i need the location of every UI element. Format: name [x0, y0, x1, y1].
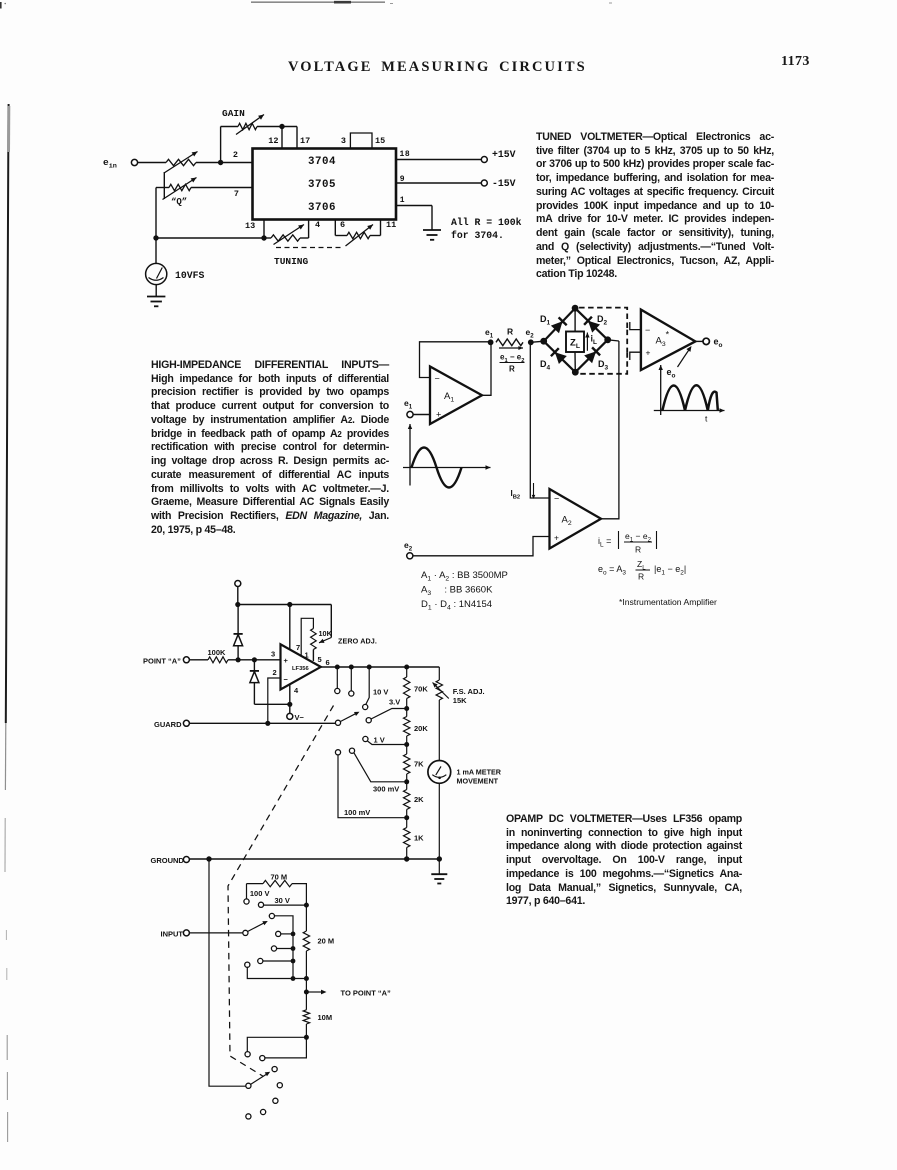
op-amp A3 [641, 310, 695, 370]
contact input 2 [276, 931, 281, 936]
node to point A [304, 990, 309, 995]
wire wiper link between pots [163, 172, 165, 199]
wire op-amp output bus [321, 666, 440, 668]
zero-adj wiper wire [330, 605, 332, 638]
svg-text:3.V: 3.V [389, 698, 400, 707]
wire e2 node down to A2 minus [530, 345, 549, 498]
resistor 20M [305, 905, 307, 931]
svg-text:-15V: -15V [492, 178, 516, 189]
resistor R [496, 339, 523, 346]
junction 30V tap [304, 903, 309, 908]
current direction arrow under R [499, 347, 523, 349]
wire V+ rail [238, 604, 331, 606]
diode bridge arms [544, 308, 575, 341]
svg-text:4: 4 [294, 686, 299, 695]
wire guard bus [190, 722, 336, 724]
junction 100mV tap [404, 815, 409, 820]
svg-text:6: 6 [340, 220, 345, 230]
svg-text:3: 3 [341, 136, 346, 146]
text block: HIGH-IMPEDANCE DIFFERENTIAL INPUTS caption [151, 359, 389, 538]
wire gain pot to pins 12/17 [257, 126, 297, 128]
contact bottom mid [260, 1056, 265, 1061]
page number 1173 [781, 54, 810, 70]
wire pin 18 to +15V [396, 159, 481, 161]
svg-text:t: t [705, 414, 708, 424]
switch common bottom [246, 1083, 251, 1088]
junction V- [287, 702, 292, 707]
wire 10V contact [366, 667, 369, 705]
svg-text:R: R [638, 572, 644, 582]
svg-text:2: 2 [273, 668, 277, 677]
svg-text:A1​: A1​ [444, 391, 454, 404]
svg-text:18: 18 [400, 150, 411, 159]
wire minus input to guard [268, 678, 281, 723]
svg-text:12: 12 [268, 136, 278, 146]
switch arm bottom [251, 1073, 268, 1084]
V+ supply terminal [235, 581, 241, 587]
svg-text:IB2​: IB2​ [511, 489, 521, 501]
svg-text:100K: 100K [208, 648, 227, 657]
contact spare 2 [273, 1098, 278, 1103]
wire contact 2 [281, 933, 293, 935]
junction common left [153, 235, 158, 240]
variable resistor gain [238, 123, 257, 129]
svg-text:13: 13 [245, 221, 255, 231]
svg-text:70K: 70K [414, 685, 428, 694]
svg-text:10K: 10K [319, 629, 333, 638]
svg-text:3705: 3705 [308, 179, 336, 191]
switch common contact (range) [335, 720, 340, 725]
wire A2 output to bridge [601, 341, 619, 519]
junction ground divider [404, 856, 409, 861]
svg-text:R: R [509, 365, 515, 374]
wire contact 5 to bus bottom [247, 967, 306, 978]
wire common horizontal [156, 237, 264, 239]
svg-text:F.S. ADJ.: F.S. ADJ. [453, 687, 485, 696]
wire input to switch common [190, 932, 244, 934]
svg-text:2K: 2K [414, 795, 424, 804]
junction output 10V branch [367, 665, 372, 670]
wire 100mV contact to divider [338, 755, 407, 818]
IC box 3704/3705/3706 [253, 149, 397, 220]
wire contact 4 [263, 960, 293, 962]
wire 100V contact to 70M [246, 884, 248, 899]
ground rail [190, 858, 440, 860]
svg-text:ZERO ADJ.: ZERO ADJ. [338, 637, 377, 646]
svg-text:e1​: e1​ [404, 398, 413, 411]
svg-text:4: 4 [315, 220, 320, 230]
wire A3 output [695, 340, 703, 342]
terminal INPUT [183, 930, 189, 936]
contact input 3 [271, 946, 276, 951]
svg-text:10M: 10M [318, 1013, 333, 1022]
dashed feedback box [579, 308, 627, 330]
svg-text:6: 6 [326, 658, 330, 667]
contact bottom arm target [272, 1067, 277, 1072]
resistor 1K [406, 818, 408, 828]
ground symbol IC pin 1 [423, 229, 441, 231]
svg-text:POINT “A”: POINT “A” [143, 657, 181, 666]
text block: TUNED VOLTMETER caption [536, 131, 774, 282]
terminal -15V [481, 180, 487, 186]
svg-text:All R = 100k: All R = 100k [451, 217, 522, 228]
junction output stub A [335, 665, 340, 670]
wire e1 to A1 + [413, 414, 430, 416]
contact 300mV [349, 748, 354, 753]
svg-text:1 V: 1 V [374, 736, 385, 745]
svg-text:−: − [554, 494, 559, 504]
terminal POINT A [183, 657, 189, 663]
svg-text:LF356: LF356 [292, 666, 310, 672]
resistor 70K [406, 667, 408, 677]
svg-text:11: 11 [386, 220, 396, 230]
input terminal e_in [131, 159, 137, 165]
svg-text:7K: 7K [414, 760, 424, 769]
contact input 4 [258, 958, 263, 963]
terminal GROUND [183, 857, 189, 863]
svg-text:2: 2 [233, 150, 238, 160]
svg-text:+: + [646, 348, 651, 358]
terminal e_o [703, 338, 709, 344]
wire FS to meter [438, 700, 440, 761]
svg-text:TUNING: TUNING [274, 256, 309, 267]
variable resistor tuning 2 [334, 220, 336, 236]
wire ground to bottom switch [209, 859, 246, 1086]
svg-text:30 V: 30 V [275, 896, 290, 905]
wire to point A node [305, 979, 307, 993]
wire e_in to scale pot [138, 162, 166, 164]
svg-text:R: R [635, 545, 641, 555]
svg-text:D1​ · D4​ : 1N4154: D1​ · D4​ : 1N4154 [421, 599, 492, 612]
resistor 10K zero adjust [301, 618, 313, 656]
svg-text:MOVEMENT: MOVEMENT [457, 776, 499, 785]
wire pin 4 [289, 685, 291, 705]
output waveform humps [662, 385, 717, 410]
variable resistor Q pot [156, 187, 169, 189]
svg-text:iL​ =: iL​ = [598, 536, 611, 549]
diode D2 [588, 321, 600, 333]
junction at pin 13 branch [261, 235, 266, 240]
svg-text:−: − [284, 675, 289, 684]
svg-text:20 M: 20 M [318, 937, 335, 946]
svg-text:*Instrumentation Amplifier: *Instrumentation Amplifier [619, 597, 717, 607]
contact input top [269, 913, 274, 918]
svg-text:15: 15 [375, 136, 385, 146]
svg-text:7: 7 [296, 643, 300, 652]
wire contact 3 [277, 948, 293, 950]
wire 100K to plus input [228, 659, 281, 661]
diode D1 [551, 321, 563, 333]
stub contact A [336, 667, 338, 689]
junction V+ pin7 [287, 602, 292, 607]
svg-text:100 V: 100 V [250, 889, 270, 898]
bridge vertex nodes [572, 305, 579, 312]
junction 300mV tap [404, 779, 409, 784]
diode clamp upper [237, 605, 239, 634]
dashed gang link tuning [276, 247, 343, 249]
svg-text:GUARD: GUARD [154, 720, 182, 729]
svg-text:−: − [645, 325, 650, 335]
junction ground meter [437, 856, 442, 861]
arrow to point A [306, 991, 322, 993]
svg-text:3704: 3704 [308, 156, 336, 168]
junction output stub B [349, 665, 354, 670]
contact bottom left [245, 1052, 250, 1057]
contact input 5 [245, 962, 250, 967]
diode clamp lower [253, 660, 255, 671]
wire meter to ground [155, 285, 157, 296]
wire V+ terminal down [237, 587, 239, 605]
svg-text:1K: 1K [414, 834, 424, 843]
ground symbol meter [147, 296, 165, 298]
wire top contact to bus [275, 916, 294, 979]
wire common to meter [155, 238, 157, 264]
junction 1V tap [404, 742, 409, 747]
resistor 10M [305, 992, 307, 1010]
wire Q pot down to common [155, 188, 157, 239]
svg-text:10VFS: 10VFS [175, 270, 205, 281]
current arrow i_L [586, 333, 588, 351]
node e2 [528, 339, 534, 345]
input sine wave [412, 448, 462, 488]
switch arm input [248, 922, 266, 931]
svg-text:15K: 15K [453, 696, 467, 705]
svg-text:+: + [284, 656, 289, 665]
wire pin 9 to -15V [396, 182, 481, 184]
svg-text:for 3704.: for 3704. [451, 230, 504, 241]
wire to V- terminal [289, 704, 291, 713]
svg-text:+: + [436, 410, 441, 420]
svg-text:20K: 20K [414, 724, 428, 733]
svg-text:e1​: e1​ [485, 327, 494, 340]
svg-text:R: R [507, 327, 513, 337]
svg-text:−: − [435, 374, 440, 384]
wire 30V contact to divider [264, 904, 307, 906]
svg-text:A3​ : BB 3660K: A3​ : BB 3660K [421, 585, 493, 598]
svg-text:eo​: eo​ [714, 337, 723, 350]
wire A3 plus input stub [630, 352, 641, 360]
junction output 70K branch [404, 665, 409, 670]
junction divider mid [304, 976, 309, 981]
contact 30V [258, 902, 263, 907]
wire A1 output up [482, 342, 491, 396]
svg-text:D3​: D3​ [598, 359, 609, 372]
junction V+ diode [235, 602, 240, 607]
svg-text:D4​: D4​ [540, 359, 551, 372]
svg-text:eo​ = A3​: eo​ = A3​ [598, 564, 626, 577]
wire scale pot to pin 2 [196, 162, 253, 164]
scan artifact: left gutter line [6, 104, 9, 723]
svg-text:GROUND: GROUND [151, 856, 185, 865]
variable resistor FS ADJ 15K [436, 680, 442, 700]
diode D3 [584, 351, 596, 363]
svg-text:7: 7 [234, 189, 239, 199]
variable resistor tuning 1 [271, 235, 300, 241]
load Z_L box [566, 332, 584, 353]
wire pin 13 [263, 220, 265, 239]
resistor 7K [406, 745, 408, 755]
contact spare 4 [246, 1114, 251, 1119]
page header title [288, 59, 587, 76]
wire gain pot left leg [220, 127, 222, 163]
svg-text:1: 1 [400, 196, 405, 205]
svg-text:“Q”: “Q” [171, 197, 187, 207]
junction node input/gain [218, 160, 223, 165]
svg-text:A2​: A2​ [562, 515, 572, 528]
svg-text:TO POINT “A”: TO POINT “A” [341, 989, 392, 998]
ground symbol main [438, 859, 440, 874]
svg-text:3706: 3706 [308, 202, 336, 214]
contact 100V [244, 899, 249, 904]
diode D4 [555, 352, 567, 364]
wire pin 1 to ground [396, 205, 432, 207]
terminal +15V [481, 157, 487, 163]
contact spare 1 [277, 1083, 282, 1088]
wire lower diode to V- node [254, 703, 289, 705]
contact 100mV [335, 750, 340, 755]
svg-text:INPUT: INPUT [161, 930, 184, 939]
text block: OPAMP DC VOLTMETER caption [506, 813, 742, 909]
svg-text:A3​*: A3​* [656, 330, 670, 349]
contact spare 3 [261, 1109, 266, 1114]
svg-text:e2​: e2​ [526, 327, 535, 340]
wire bridge center vertical [574, 308, 576, 331]
meter 1mA movement [428, 761, 451, 784]
wire Q pot to pin 7 [191, 187, 253, 189]
variable resistor (scale) in series with input [166, 159, 196, 165]
svg-text:A1​ · A2​ : BB 3500MP: A1​ · A2​ : BB 3500MP [421, 570, 508, 583]
wire 300mV contact to divider [354, 753, 407, 782]
switch arm range [340, 713, 357, 722]
svg-text:1 mA METER: 1 mA METER [457, 768, 502, 777]
node e1 [488, 339, 494, 345]
op-amp A2 [550, 489, 602, 549]
wire A1 feedback [420, 342, 491, 378]
wire 10M bottom left branch [247, 1037, 306, 1051]
annotation arrow e_o to output [678, 348, 691, 368]
junction ground input branch [206, 856, 211, 861]
junction lower diode node [252, 657, 257, 662]
resistor 100K [208, 657, 228, 663]
wire point A to 100K [190, 659, 209, 661]
pin bracket 3/15 [350, 133, 372, 149]
resistor 2K [406, 782, 408, 790]
terminal e2 input [407, 553, 413, 559]
resistor 70M [263, 880, 292, 886]
scan artifact: top-left corner mark [0, 2, 2, 9]
resistor 20K [406, 709, 408, 717]
svg-text:300 mV: 300 mV [373, 785, 399, 794]
switch common input [243, 930, 248, 935]
terminal V- [287, 713, 293, 719]
contact 1V [363, 736, 368, 741]
wire meter to ground rail [438, 783, 440, 859]
svg-text:3: 3 [271, 650, 275, 659]
contact 3V [366, 718, 371, 723]
wire A3 minus input stub [630, 322, 641, 330]
wire 1V contact to divider [367, 741, 406, 745]
stub contact B [350, 667, 352, 691]
svg-text:GAIN: GAIN [222, 108, 245, 119]
svg-text:V−: V− [295, 713, 305, 722]
op-amp A1 [430, 367, 482, 425]
wire 10M bottom right branch [265, 1037, 307, 1058]
svg-text:D1​: D1​ [540, 314, 551, 327]
svg-text:+15V: +15V [492, 149, 516, 160]
terminal e1 [407, 411, 413, 417]
svg-text:eo​: eo​ [667, 367, 676, 380]
wire e2 to bridge [531, 341, 544, 342]
svg-text:17: 17 [300, 136, 310, 146]
wire e2 terminal to A2 plus [413, 537, 550, 556]
wire FS branch down [438, 667, 440, 680]
output waveform axes [660, 365, 662, 415]
junction 10M bottom [304, 1035, 309, 1040]
wire 3V contact to divider [371, 709, 407, 720]
svg-text:|e1​ − e2​|: |e1​ − e2​| [654, 564, 686, 577]
svg-text:e2​: e2​ [404, 540, 413, 553]
wire pin 7 [289, 605, 291, 651]
wire 70M to divider top [292, 884, 306, 906]
svg-text:70 M: 70 M [271, 873, 288, 882]
junction 3V tap [404, 706, 409, 711]
op-amp LF356 [281, 644, 321, 689]
input waveform axes [409, 424, 411, 486]
svg-text:5: 5 [318, 655, 322, 664]
terminal GUARD [183, 720, 189, 726]
dashed switch gang link [228, 706, 334, 1077]
junction upper diode node [236, 657, 241, 662]
junction guard [265, 721, 270, 726]
svg-text:ein​: ein​ [103, 157, 117, 171]
svg-text:10 V: 10 V [373, 688, 388, 697]
svg-text:100 mV: 100 mV [344, 808, 370, 817]
svg-text:+: + [554, 533, 559, 543]
meter 10VFS [146, 263, 167, 284]
wire bridge right vertex stub [608, 340, 619, 341]
svg-text:iL​: iL​ [591, 334, 598, 347]
scan artifact: top edge line [251, 1, 385, 3]
bias current I_B2 arrow [533, 483, 535, 496]
